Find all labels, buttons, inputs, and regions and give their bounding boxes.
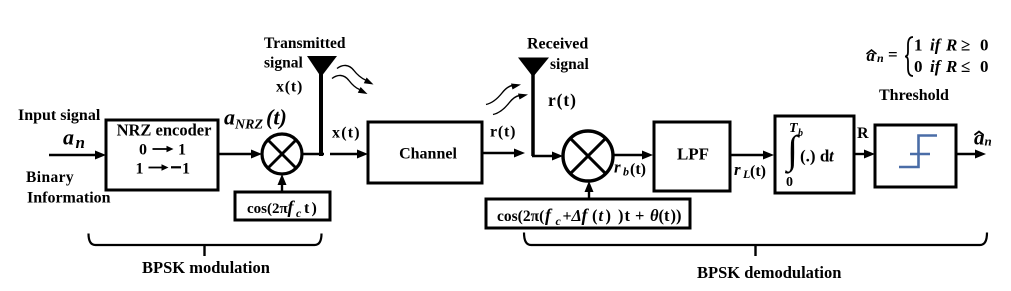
svg-text:): ) <box>618 206 624 225</box>
svg-text:b: b <box>623 165 629 179</box>
svg-text:): ) <box>606 206 612 225</box>
svg-text:): ) <box>676 206 682 225</box>
svg-text:1: 1 <box>178 142 186 159</box>
svg-text:Transmitted: Transmitted <box>264 35 346 52</box>
svg-text:Channel: Channel <box>399 146 457 163</box>
svg-text:(.) d: (.) d <box>800 147 830 166</box>
svg-text:R: R <box>945 36 957 55</box>
svg-text:a: a <box>974 126 985 150</box>
svg-text:(t): (t) <box>630 161 646 178</box>
svg-text:n: n <box>76 133 85 152</box>
svg-text:≤: ≤ <box>961 57 970 76</box>
svg-text:1: 1 <box>136 161 144 178</box>
svg-text:n: n <box>985 134 992 149</box>
svg-text:=: = <box>888 45 898 64</box>
svg-text:c: c <box>296 206 302 220</box>
svg-text:Input signal: Input signal <box>18 107 101 124</box>
svg-text:0: 0 <box>980 57 989 76</box>
svg-text:(t): (t) <box>266 105 287 130</box>
svg-text:LPF: LPF <box>677 145 709 164</box>
svg-text:t: t <box>625 206 631 225</box>
svg-text:(: ( <box>592 206 598 225</box>
svg-text:BPSK modulation: BPSK modulation <box>142 258 270 277</box>
svg-text:+: + <box>563 208 572 225</box>
svg-text:b: b <box>798 128 803 139</box>
svg-text:cos(2π: cos(2π <box>247 201 288 217</box>
svg-text:x(t): x(t) <box>276 79 303 96</box>
svg-text:NRZ: NRZ <box>234 118 263 133</box>
svg-text:n: n <box>877 51 884 65</box>
svg-text:0: 0 <box>980 36 989 55</box>
svg-text:r: r <box>614 158 621 177</box>
svg-text:Information: Information <box>27 190 111 207</box>
svg-text:Δ: Δ <box>571 206 582 225</box>
svg-text:t: t <box>599 206 604 225</box>
svg-text:Received: Received <box>527 36 588 53</box>
svg-text:1: 1 <box>182 161 190 178</box>
svg-text:R: R <box>857 125 869 142</box>
svg-text:t: t <box>304 200 310 217</box>
svg-text:r(t): r(t) <box>490 124 516 141</box>
svg-text:0: 0 <box>914 57 923 76</box>
svg-text:a: a <box>224 105 235 130</box>
svg-text:c: c <box>556 214 562 228</box>
svg-text:0: 0 <box>139 142 147 159</box>
svg-text:Threshold: Threshold <box>879 87 949 104</box>
svg-text:1: 1 <box>914 36 923 55</box>
svg-text:NRZ encoder: NRZ encoder <box>117 121 212 140</box>
svg-text:): ) <box>312 200 317 217</box>
svg-text:a: a <box>867 46 876 65</box>
svg-text:(t): (t) <box>750 163 766 180</box>
svg-text:BPSK demodulation: BPSK demodulation <box>697 263 841 282</box>
svg-text:signal: signal <box>550 56 589 73</box>
svg-text:r: r <box>734 160 741 179</box>
svg-text:Binary: Binary <box>26 169 74 186</box>
svg-text:signal: signal <box>264 55 303 72</box>
svg-text:R: R <box>945 57 957 76</box>
svg-text:a: a <box>63 125 74 150</box>
svg-text:cos(2π(: cos(2π( <box>497 208 544 225</box>
svg-text:≥: ≥ <box>961 36 970 55</box>
svg-text:r(t): r(t) <box>548 90 577 110</box>
svg-text:t: t <box>664 206 670 225</box>
svg-text:+: + <box>635 206 644 225</box>
svg-text:0: 0 <box>786 175 793 190</box>
svg-text:x(t): x(t) <box>332 125 361 142</box>
